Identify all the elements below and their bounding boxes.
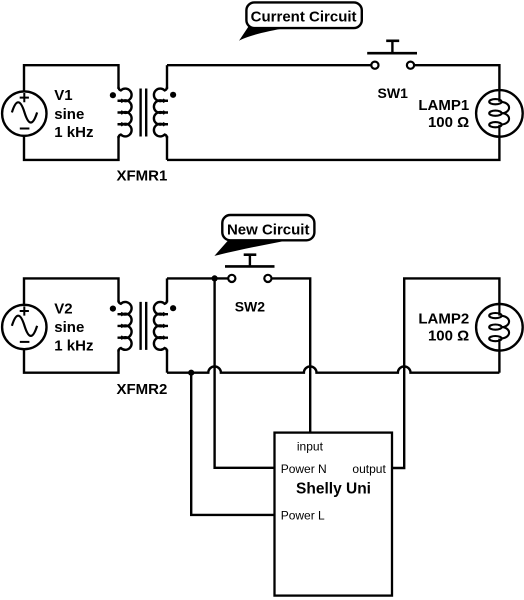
- svg-text:XFMR2: XFMR2: [116, 381, 167, 398]
- wire: LAMP1 bottom to secondary bottom: [167, 137, 499, 160]
- wire: secondary top to SW1: [167, 64, 371, 66]
- wire: V2 box bottom (V2- to XFMR2 primary bottom): [24, 349, 119, 373]
- XFMR1 primary phase dot: [110, 92, 116, 98]
- svg-text:sine: sine: [54, 319, 84, 336]
- label LAMP2 / 100 ohm: [418, 310, 469, 344]
- label LAMP1 / 100 ohm: [418, 97, 469, 131]
- svg-text:Current Circuit: Current Circuit: [251, 9, 357, 26]
- wire: V1 box top (node from V1+ to XFMR1 primary top): [24, 65, 119, 91]
- wire: Shelly output up to LAMP2 box: [392, 278, 499, 468]
- wire: node down to Power N: [215, 278, 274, 467]
- wire: secondary bottom (neutral) with hops: [167, 366, 499, 372]
- wire: V2 box top (V2+ to XFMR2 primary top): [24, 278, 119, 304]
- svg-text:New Circuit: New Circuit: [227, 222, 310, 239]
- XFMR2 primary phase dot: [110, 306, 116, 312]
- transformer XFMR2 secondary winding: [154, 300, 168, 351]
- svg-text:SW2: SW2: [235, 298, 266, 314]
- transformer XFMR1 primary winding: [118, 87, 132, 138]
- junction node at SW2 input: [212, 275, 218, 281]
- callout "New Circuit" bubble: [222, 215, 314, 240]
- label V1 value: V1 / sine / 1 kHz: [54, 87, 93, 141]
- lamp LAMP2: [476, 304, 523, 351]
- wire: XFMR1 secondary bottom lead: [166, 136, 168, 160]
- wire: LAMP2 bottom lead: [498, 351, 500, 373]
- callout "Current Circuit" bubble: [246, 2, 361, 28]
- lamp LAMP1: [476, 90, 523, 137]
- transformer XFMR2 primary winding: [118, 300, 132, 351]
- XFMR1 secondary phase dot: [170, 92, 176, 98]
- wire: neutral junction down to Power L: [191, 373, 274, 515]
- svg-text:Power L: Power L: [281, 508, 325, 522]
- wire: V1 box bottom (V1- to XFMR1 primary bottom): [24, 136, 119, 160]
- svg-text:100 Ω: 100 Ω: [428, 114, 469, 131]
- transformer XFMR2 core: [141, 302, 147, 350]
- svg-text:output: output: [352, 462, 386, 476]
- junction node on neutral: [188, 370, 194, 376]
- svg-text:Power N: Power N: [281, 462, 327, 476]
- svg-text:LAMP1: LAMP1: [418, 97, 469, 114]
- svg-text:1 kHz: 1 kHz: [54, 338, 93, 355]
- svg-text:1 kHz: 1 kHz: [54, 124, 93, 141]
- svg-text:LAMP2: LAMP2: [418, 310, 469, 327]
- svg-text:sine: sine: [54, 106, 84, 123]
- svg-text:100 Ω: 100 Ω: [428, 328, 469, 345]
- switch SW1 (pushbutton): [367, 41, 417, 69]
- label V2 value: V2 / sine / 1 kHz: [54, 300, 93, 354]
- wire: SW1 to LAMP1 top: [414, 65, 499, 90]
- callout "Current Circuit" tail: [239, 27, 288, 41]
- wire: XFMR1 secondary top lead: [166, 65, 168, 89]
- XFMR2 secondary phase dot: [170, 305, 176, 311]
- voltage source V1: [2, 91, 46, 135]
- svg-text:input: input: [297, 439, 324, 453]
- transformer XFMR1 secondary winding: [154, 87, 168, 138]
- svg-text:V1: V1: [54, 87, 72, 104]
- voltage source V2: [2, 305, 46, 349]
- callout "New Circuit" tail: [214, 241, 282, 256]
- wire: SW2 output down to Shelly input: [272, 278, 310, 432]
- svg-text:XFMR1: XFMR1: [116, 167, 167, 184]
- svg-text:SW1: SW1: [378, 85, 409, 101]
- svg-text:V2: V2: [54, 300, 72, 317]
- svg-text:Shelly Uni: Shelly Uni: [296, 481, 371, 498]
- IC U1 Shelly Uni box: [275, 433, 393, 596]
- transformer XFMR1 core: [141, 89, 147, 137]
- wire: XFMR2 secondary top lead: [166, 278, 168, 302]
- wire: XFMR2 secondary bottom lead: [166, 349, 168, 372]
- switch SW2 (pushbutton): [225, 255, 275, 282]
- wire: secondary top to SW2: [167, 277, 228, 279]
